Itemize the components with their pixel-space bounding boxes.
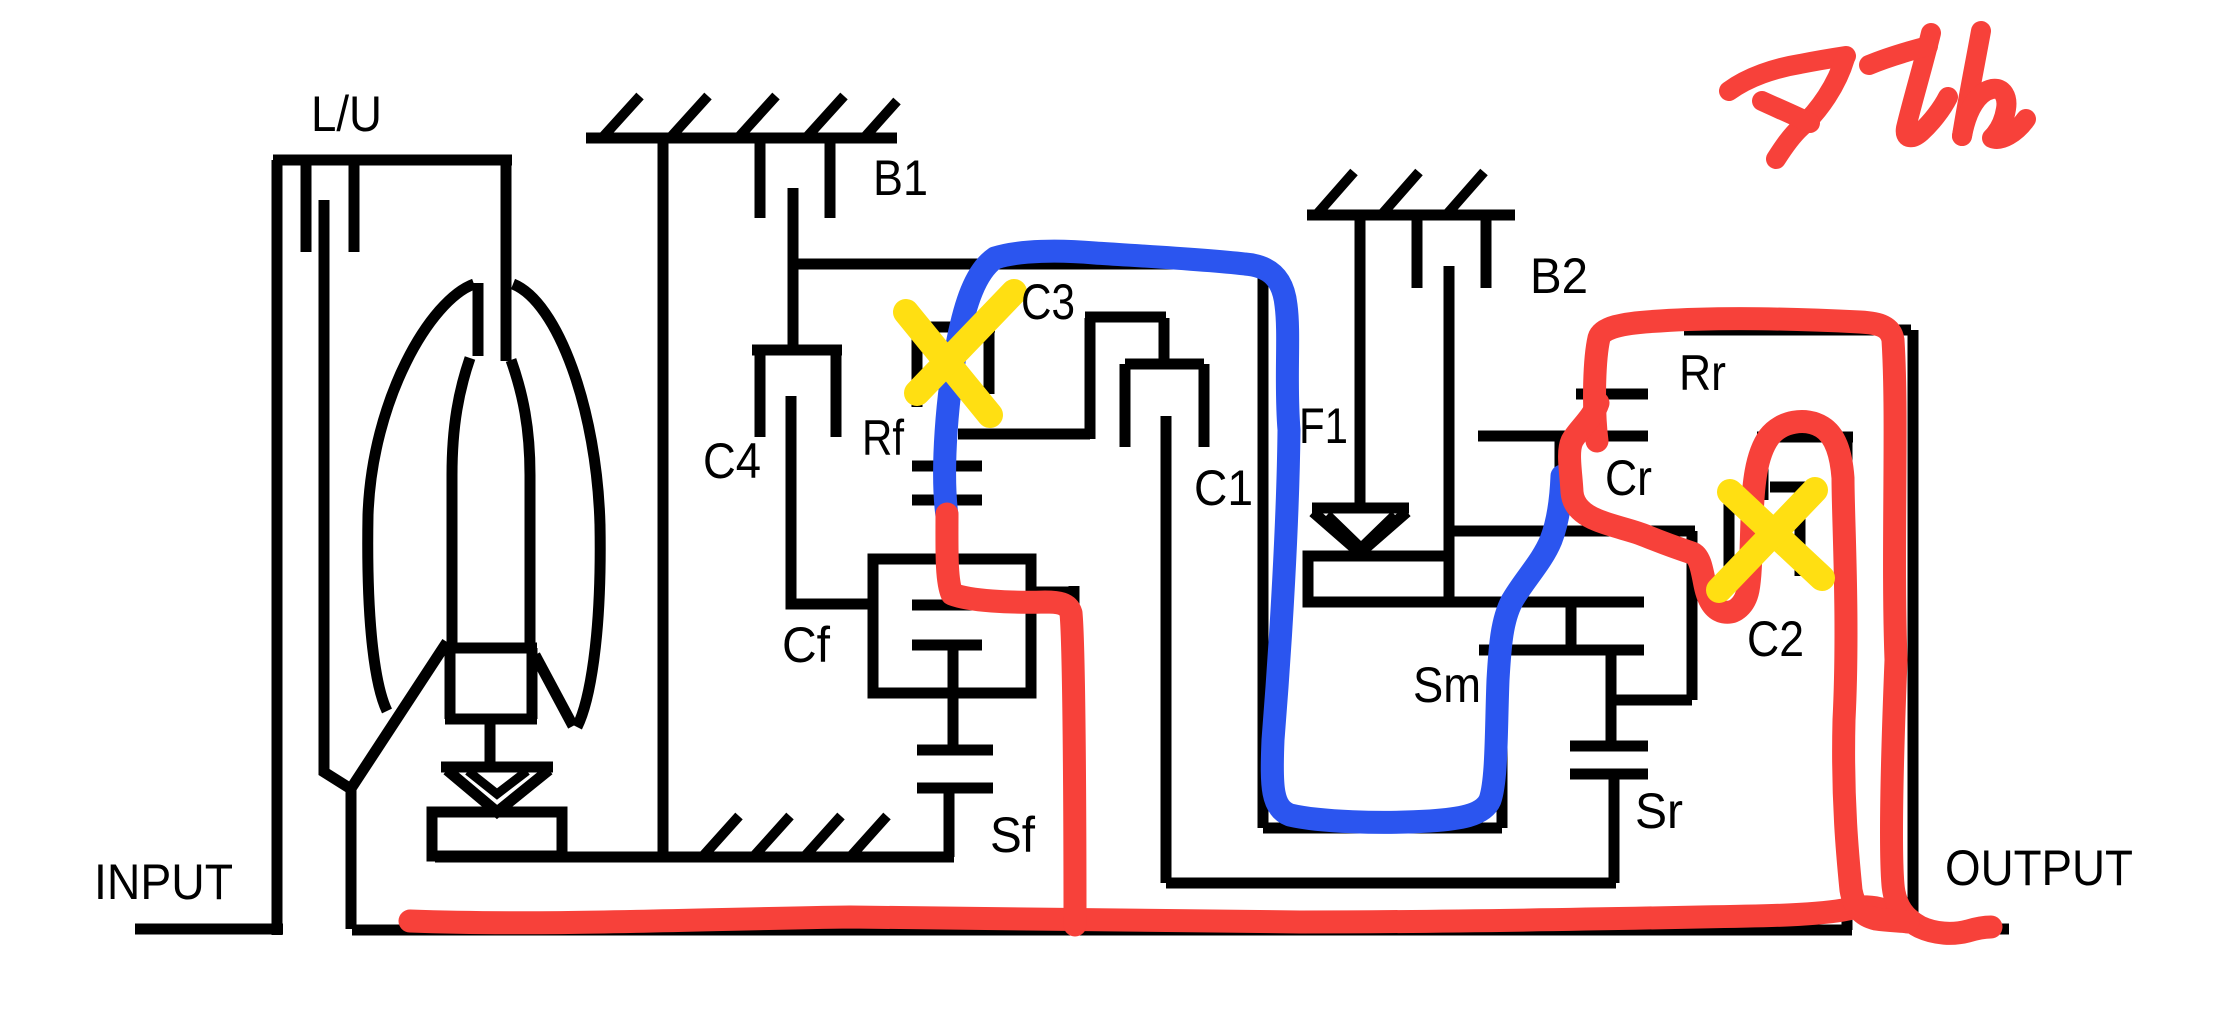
one-way clutch F1 shaft <box>1355 215 1366 506</box>
svg-text:OUTPUT: OUTPUT <box>1945 840 2133 896</box>
sun Sr stem <box>1609 774 1620 883</box>
B1 case hatch <box>602 96 897 138</box>
converter base plate <box>432 812 562 856</box>
clutch C3 hub plate <box>947 350 958 434</box>
converter housing left vertical <box>272 160 283 935</box>
sun Sr bottom bar <box>1570 769 1648 780</box>
cross-out X over C2 stroke 1 <box>1730 492 1822 578</box>
output drum top line <box>1684 325 1911 336</box>
ring Rf bar 2 <box>912 495 982 506</box>
clutch C1 outer bracket <box>1085 317 1166 439</box>
clutch C2 inner bar <box>1770 482 1822 493</box>
cross-out X over C2 stroke 2 <box>1719 490 1815 590</box>
brake B2 plate 1 <box>1412 215 1423 288</box>
middle drum bottom line <box>1166 878 1616 889</box>
one-way clutch F1 triangle <box>1313 512 1407 553</box>
clutch C2 plate B <box>1795 492 1806 576</box>
clutch C2 plate A <box>1724 500 1735 578</box>
brake B1 hub plate <box>788 188 799 351</box>
handwritten h stem <box>1962 31 1981 136</box>
handwritten t stem <box>1906 33 1948 137</box>
svg-text:C1: C1 <box>1194 460 1253 516</box>
handwritten t cross <box>1869 46 1928 65</box>
clutch C2 bracket <box>1757 437 1853 930</box>
svg-text:Rf: Rf <box>862 410 904 466</box>
Cf output bar <box>1031 587 1074 598</box>
clutch C4 hub plate <box>791 396 873 604</box>
sun Sf bottom bar <box>917 783 993 794</box>
carrier line to rear <box>1449 597 1644 608</box>
clutch Cf drum <box>873 559 1031 693</box>
lock-up clutch hub plate and turbine shaft <box>324 200 351 929</box>
blue annotation path <box>945 251 1562 822</box>
front ground line <box>435 852 954 863</box>
front ground hatch <box>704 816 887 855</box>
handwritten 7 top bar <box>1729 56 1846 91</box>
brake B2 plate 2 <box>1481 215 1492 288</box>
converter input shaft stub <box>501 160 512 361</box>
clutch C4 bracket <box>752 350 842 437</box>
brake B1 plate 2 <box>825 138 836 218</box>
upper drum line <box>793 259 1269 270</box>
torus outer right arc <box>513 284 600 727</box>
red annotation output loop stroke <box>1595 319 1991 934</box>
clutch C3 bracket <box>911 327 995 407</box>
sun Sf shaft <box>948 645 959 750</box>
handwritten h hump <box>1962 89 2026 139</box>
stator top bar <box>445 643 537 654</box>
rear connector 1 <box>1566 602 1577 650</box>
B1 case wall <box>586 133 897 144</box>
front ring line <box>958 429 1090 440</box>
svg-text:B2: B2 <box>1530 248 1588 304</box>
clutch C1 hub plate <box>1161 416 1172 883</box>
B2 case hatch <box>1318 172 1484 213</box>
svg-text:B1: B1 <box>873 150 928 206</box>
one-way clutch F1 top bar <box>1312 503 1409 514</box>
clutch C1 drum vertical <box>1258 264 1269 828</box>
red annotation front stroke <box>947 514 1075 925</box>
turbine inner right arc <box>511 360 530 643</box>
svg-text:INPUT: INPUT <box>94 854 233 910</box>
lock-up clutch plate 2 <box>349 158 360 252</box>
svg-text:Cr: Cr <box>1605 450 1652 506</box>
cross-out X over C3 stroke 1 <box>906 312 990 415</box>
one-way clutch triangle <box>447 770 549 812</box>
rear connector 2 <box>1606 650 1617 746</box>
torus outer left arc <box>368 284 474 711</box>
svg-text:Sm: Sm <box>1413 657 1481 713</box>
red annotation bottom stroke <box>410 907 1910 923</box>
ring Rr bar 1 <box>1576 389 1648 400</box>
cross-out X over C3 stroke 2 <box>917 292 1014 393</box>
ring Rr to carrier stub <box>1555 441 1566 531</box>
handwritten 7 descender <box>1776 58 1845 159</box>
svg-text:C2: C2 <box>1747 611 1804 667</box>
one-way clutch F1 inner triangle <box>1327 515 1395 548</box>
svg-text:L/U: L/U <box>311 86 382 142</box>
one-way clutch inner triangle <box>468 771 527 794</box>
svg-text:Sr: Sr <box>1635 783 1683 839</box>
impeller notch diagonal <box>535 655 573 726</box>
svg-text:C3: C3 <box>1021 274 1075 330</box>
carrier Cr bar <box>1453 526 1695 537</box>
brake B2 hub plate <box>1444 266 1455 556</box>
sun Sm shaft <box>1497 656 1508 828</box>
sun Sm bar <box>1479 645 1644 656</box>
output shaft line <box>1913 924 2009 935</box>
red annotation carrier stroke <box>1570 403 1908 922</box>
main bottom shaft line <box>352 925 1852 936</box>
svg-text:Cf: Cf <box>782 617 830 673</box>
handwritten 7 cross <box>1762 101 1810 123</box>
sun Sf top bar <box>917 745 993 756</box>
converter apex bar <box>473 283 484 356</box>
svg-text:C4: C4 <box>703 433 761 489</box>
clutch C1 inner bracket <box>1125 364 1204 447</box>
output drum right vertical <box>1908 330 1919 929</box>
clutch Cf inner bar 2 <box>912 640 982 651</box>
carrier F1 base plate <box>1308 556 1449 602</box>
B2 case wall <box>1307 210 1515 221</box>
ring Rf bar 1 <box>912 461 982 472</box>
ring Rf upper connector <box>945 434 956 466</box>
turbine inner left arc <box>452 358 470 643</box>
clutch Cf inner bar 1 <box>912 600 982 611</box>
stator stem <box>485 719 496 766</box>
carrier Cr lower bar <box>1616 695 1692 706</box>
sun Sr top bar <box>1570 741 1648 752</box>
svg-text:F1: F1 <box>1299 398 1348 454</box>
svg-text:Sf: Sf <box>990 807 1035 863</box>
sun Sf stem <box>944 788 955 857</box>
ring Rf lower connector <box>943 500 954 559</box>
turbine diagonal link <box>350 642 447 790</box>
one-way clutch top bar <box>441 762 553 773</box>
input shaft line <box>135 924 283 935</box>
converter housing top line <box>273 155 512 166</box>
case wall vertical <box>658 138 669 857</box>
stator rectangle <box>445 648 537 719</box>
carrier Cr right connector <box>1687 531 1698 700</box>
svg-text:Rr: Rr <box>1679 345 1726 401</box>
ring Rr bar 2 <box>1478 431 1648 442</box>
clutch C1 drum bottom bar <box>1263 823 1502 834</box>
Cf output vertical <box>1069 586 1080 930</box>
lock-up clutch plate 1 <box>301 158 312 252</box>
brake B1 plate 1 <box>755 138 766 218</box>
